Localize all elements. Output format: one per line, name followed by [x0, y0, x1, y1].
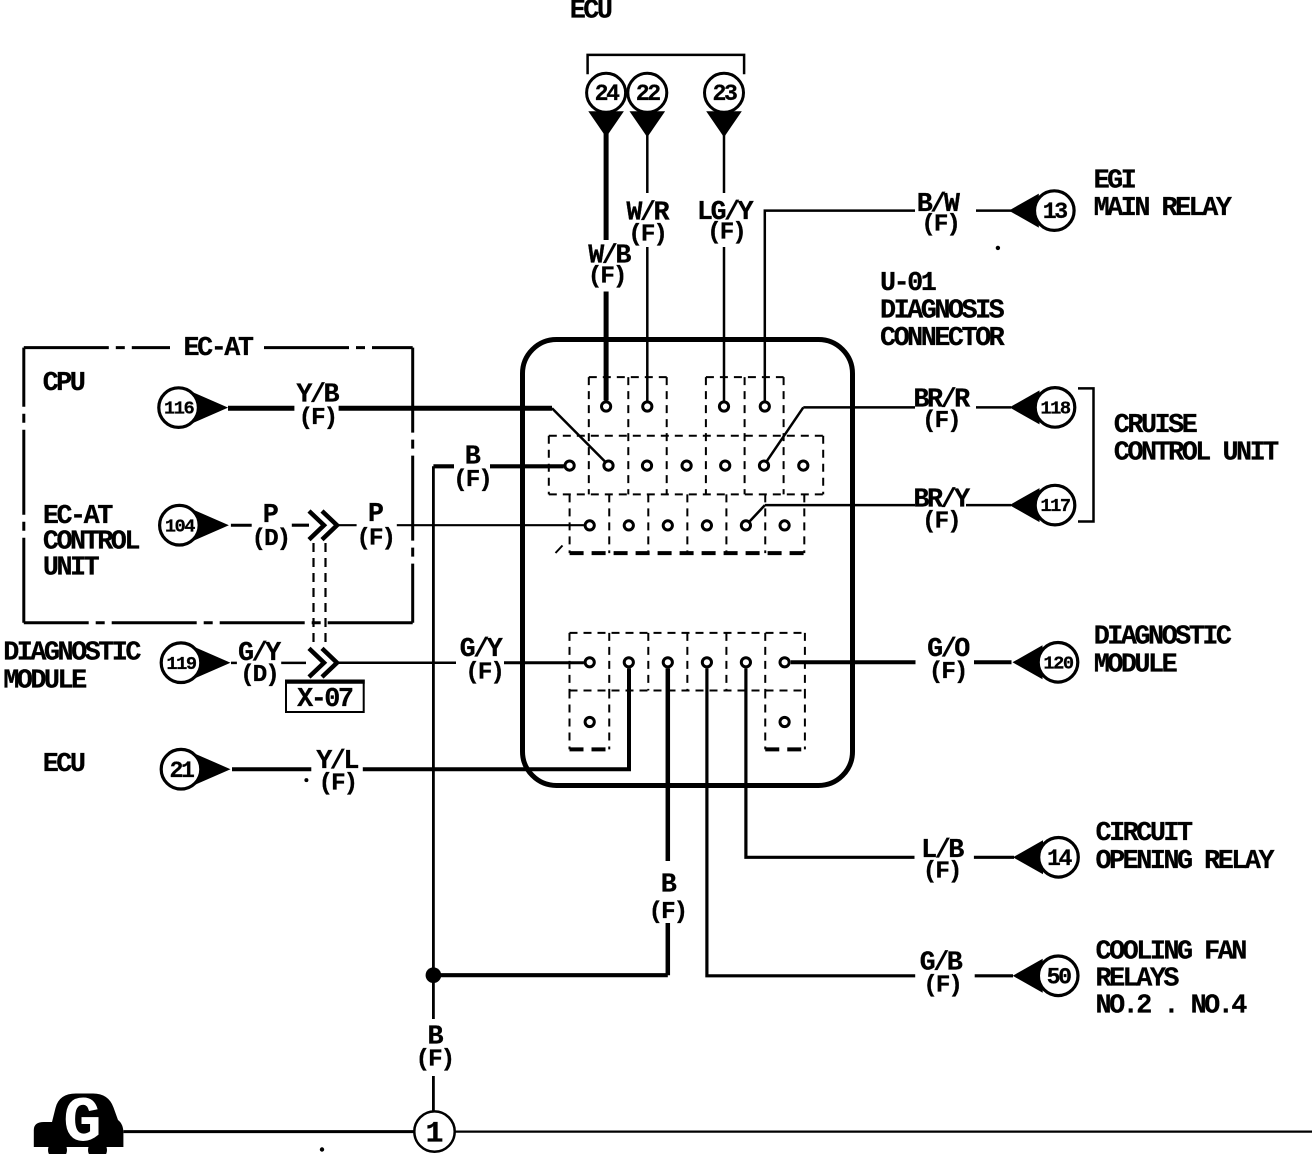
svg-text:117: 117	[1040, 495, 1069, 517]
connector arrow 23	[706, 111, 742, 137]
wire P (D) segment	[231, 524, 309, 527]
label CIRCUIT OPENING RELAY	[1096, 819, 1276, 877]
svg-text:(F): (F)	[922, 509, 960, 536]
connector arrow 24	[588, 111, 624, 137]
svg-text:(F): (F)	[923, 858, 961, 885]
svg-text:24: 24	[595, 81, 621, 107]
label W/B (F)	[588, 241, 632, 290]
svg-text:(F): (F)	[298, 405, 336, 432]
arrow from pin 119	[195, 647, 231, 678]
wire W/B from pin 24	[604, 130, 609, 401]
label EGI MAIN RELAY	[1094, 167, 1233, 224]
junction dot	[426, 967, 442, 983]
svg-text:(F): (F)	[649, 899, 687, 926]
arrow from pin 104	[193, 510, 229, 541]
label G/O (F)	[927, 635, 970, 686]
tick mark	[556, 546, 563, 554]
lower terminal pins	[585, 658, 789, 727]
wire LG/Y from pin 23	[723, 130, 726, 401]
stray dot	[996, 246, 1000, 250]
arrow to cruise control 117	[1010, 488, 1040, 522]
EC-AT unit box (dash-dot border)	[24, 348, 413, 623]
svg-text:(F): (F)	[356, 525, 394, 552]
svg-text:104: 104	[165, 515, 195, 537]
cruise control bracket	[1078, 388, 1094, 521]
wire Y/B	[228, 406, 552, 411]
connector circle 24	[587, 73, 626, 112]
label Y/L (F)	[304, 747, 358, 797]
label U-01 DIAGNOSIS CONNECTOR	[880, 269, 1006, 354]
svg-text:G: G	[63, 1088, 101, 1154]
svg-text:CPU: CPU	[43, 369, 85, 399]
label G/B (F)	[920, 948, 963, 999]
svg-text:(D): (D)	[251, 526, 289, 553]
connector circle 118	[1035, 388, 1075, 428]
label CRUISE CONTROL UNIT	[1114, 411, 1279, 468]
label G/Y (F)	[460, 635, 504, 686]
svg-text:116: 116	[164, 398, 194, 420]
svg-text:(F): (F)	[588, 264, 626, 291]
svg-text:DIAGNOSTIC: DIAGNOSTIC	[1094, 622, 1232, 652]
upper terminal group dashed cells	[549, 377, 823, 553]
svg-text:(F): (F)	[929, 659, 967, 686]
svg-text:(F): (F)	[416, 1047, 454, 1074]
svg-text:14: 14	[1047, 846, 1073, 872]
svg-text:ECU: ECU	[43, 750, 85, 780]
connector circle 22	[628, 73, 667, 112]
svg-text:CONTROL UNIT: CONTROL UNIT	[1114, 438, 1279, 468]
svg-text:CONNECTOR: CONNECTOR	[880, 324, 1006, 354]
svg-text:X-07: X-07	[297, 685, 353, 715]
connector circle 120	[1038, 643, 1078, 683]
bracket over connectors 24/22/23	[588, 55, 745, 74]
arrow from pin 116	[193, 392, 229, 423]
wire BR/R diagonal	[764, 407, 804, 465]
svg-text:CRUISE: CRUISE	[1114, 411, 1197, 441]
label B (F) (middle)	[453, 443, 491, 494]
svg-text:(F): (F)	[707, 220, 745, 247]
wire L/B	[746, 668, 1014, 857]
label G/Y (D)	[238, 639, 282, 689]
ground symbol (car)	[34, 1088, 124, 1154]
wire G/Y (F)	[338, 661, 584, 664]
arrow to cruise control 118	[1010, 390, 1040, 424]
wire G/O	[791, 660, 1012, 664]
arrow to diagnostic module 120	[1013, 645, 1043, 679]
arrow to circuit opening relay 14	[1013, 840, 1043, 874]
svg-text:(F): (F)	[465, 659, 503, 686]
ground bus wire	[123, 1130, 1312, 1133]
svg-text:CIRCUIT: CIRCUIT	[1096, 819, 1193, 849]
svg-text:EC-AT: EC-AT	[184, 334, 254, 364]
label P (F)	[356, 500, 394, 552]
svg-text:118: 118	[1040, 398, 1070, 420]
svg-text:1: 1	[425, 1118, 443, 1152]
upper terminal pins	[565, 402, 808, 530]
connector label X-07 box	[285, 681, 365, 715]
svg-text:23: 23	[712, 81, 737, 107]
svg-text:MODULE: MODULE	[3, 667, 86, 697]
label BR/R (F)	[913, 385, 971, 435]
wire junction run	[433, 973, 667, 977]
svg-text:UNIT: UNIT	[43, 554, 100, 584]
inline connector X-07 dashed link	[314, 543, 326, 646]
lower terminal group dashed cells	[570, 633, 805, 750]
ground node circle 1	[414, 1111, 454, 1151]
svg-text:MODULE: MODULE	[1094, 651, 1177, 681]
svg-text:EGI: EGI	[1094, 167, 1136, 197]
svg-text:MAIN RELAY: MAIN RELAY	[1094, 194, 1233, 224]
connector circle 23	[705, 73, 744, 112]
connector circle 116	[159, 388, 199, 428]
svg-text:22: 22	[636, 81, 661, 107]
wire BR/Y	[765, 504, 1011, 507]
wire W/R from pin 22	[646, 130, 649, 401]
wire Y/L	[232, 668, 629, 769]
label BR/Y (F)	[913, 486, 971, 536]
label EC-AT CONTROL UNIT	[43, 502, 139, 584]
wire G/Y (D) segment	[231, 662, 306, 665]
wire BR/Y diagonal	[746, 505, 765, 525]
arrow to EGI main relay	[1009, 194, 1039, 228]
wire B (F) from lower pin 3	[666, 668, 671, 975]
svg-text:13: 13	[1043, 199, 1068, 225]
label P (D)	[251, 501, 289, 553]
svg-text:(F): (F)	[921, 211, 959, 238]
connector circle 21	[161, 749, 201, 789]
arrow from pin 21	[195, 754, 231, 785]
wire B (F) vertical	[432, 466, 435, 975]
stray dot (bottom)	[320, 1147, 324, 1151]
label W/R (F)	[626, 199, 670, 249]
label DIAGNOSTIC MODULE (left)	[3, 639, 141, 697]
svg-text:(F): (F)	[923, 972, 961, 999]
svg-text:50: 50	[1047, 964, 1072, 990]
connector circle 13	[1035, 191, 1075, 231]
arrow to cooling fan relays 50	[1013, 959, 1043, 993]
label L/B (F)	[921, 836, 964, 886]
label COOLING FAN RELAYS NO.2 NO.4	[1096, 937, 1248, 1021]
svg-text:COOLING FAN: COOLING FAN	[1096, 937, 1247, 967]
connector circle 119	[161, 643, 201, 683]
svg-text:ECU: ECU	[570, 0, 612, 26]
svg-text:120: 120	[1043, 652, 1073, 674]
wire B/W	[765, 211, 1011, 401]
svg-text:(F): (F)	[628, 221, 666, 248]
connector circle 117	[1035, 485, 1075, 525]
inline connector X-07 chevron (P)	[309, 511, 337, 540]
svg-text:(F): (F)	[453, 467, 491, 494]
wire P (F) segment	[339, 524, 584, 526]
svg-text:(F): (F)	[319, 770, 357, 797]
svg-text:U-01: U-01	[880, 269, 936, 299]
svg-text:RELAYS: RELAYS	[1096, 964, 1180, 994]
connector circle 50	[1038, 956, 1078, 996]
wire B (F) to pin	[433, 464, 563, 468]
wire BR/R	[803, 406, 1011, 409]
wire Y/B diagonal to pin	[552, 408, 605, 461]
svg-text:NO.2 . NO.4: NO.2 . NO.4	[1096, 991, 1248, 1021]
svg-text:OPENING RELAY: OPENING RELAY	[1096, 847, 1276, 877]
connector arrow 22	[630, 111, 666, 137]
svg-text:DIAGNOSTIC: DIAGNOSTIC	[3, 639, 141, 669]
svg-text:119: 119	[166, 653, 196, 675]
svg-text:(F): (F)	[922, 408, 960, 435]
U-01 diagnosis connector body	[523, 340, 853, 786]
label B/W (F)	[917, 190, 961, 238]
svg-text:21: 21	[169, 758, 194, 784]
label B (F) (lower)	[649, 871, 687, 927]
inline connector X-07 chevron (G/Y)	[309, 648, 337, 677]
label DIAGNOSTIC MODULE (right)	[1094, 622, 1232, 680]
label LG/Y (F)	[697, 198, 755, 247]
svg-text:DIAGNOSIS: DIAGNOSIS	[880, 296, 1005, 326]
label B (F) (ground)	[416, 1023, 454, 1074]
wire G/B	[707, 668, 1013, 976]
svg-text:(D): (D)	[240, 662, 278, 689]
connector circle 104	[160, 505, 200, 545]
connector circle 14	[1039, 838, 1079, 878]
wire B (F) to ground	[432, 975, 435, 1111]
svg-text:B: B	[661, 871, 677, 901]
label Y/B (F)	[296, 381, 339, 433]
